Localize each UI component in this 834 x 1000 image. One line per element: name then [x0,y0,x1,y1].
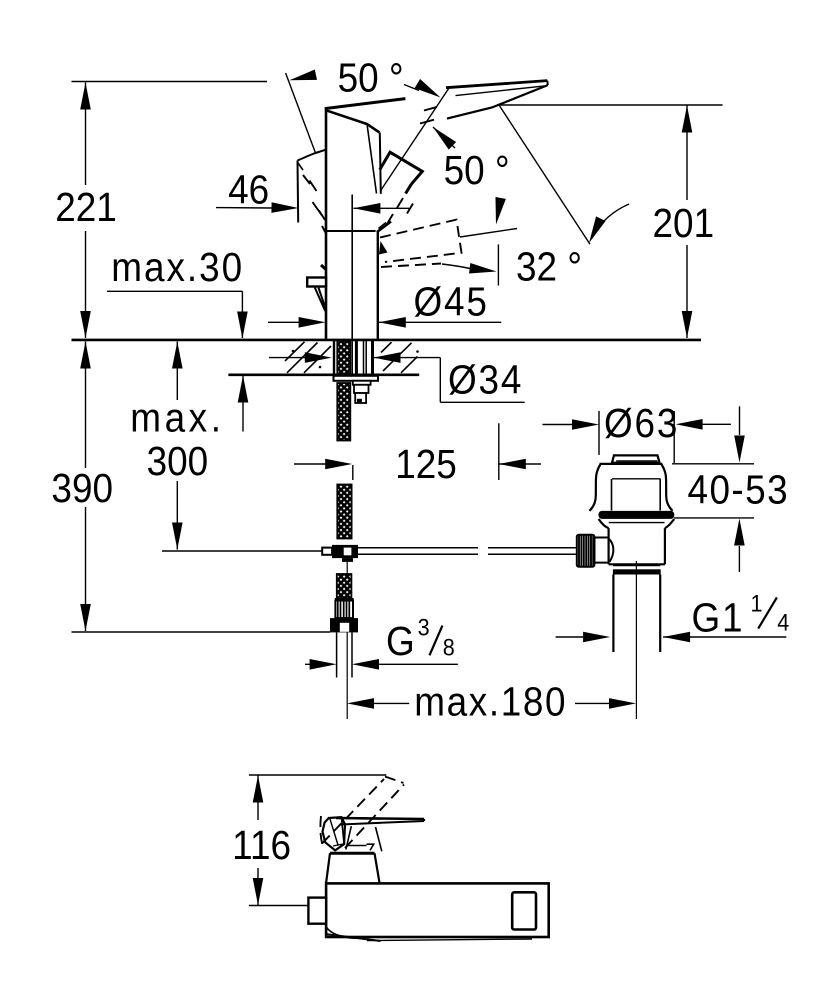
spout belly line [327,934,381,941]
lever raised: top corner [298,150,326,161]
svg-text:max.30: max.30 [111,245,244,290]
mounting nut steps [353,381,371,385]
svg-text:3: 3 [418,613,430,640]
angle leg left [286,73,316,153]
pop-up linkage rod [358,548,577,555]
rubber washer [599,511,675,519]
svg-text:max.: max. [130,396,224,441]
svg-text:32 °: 32 ° [516,245,582,290]
inner cylinder [612,479,661,511]
svg-text:max.180: max.180 [414,680,567,725]
braided hose segment 3 [337,574,352,598]
left arrow [288,70,317,86]
body right edge [377,231,379,339]
reference lines 40-53 [672,464,754,518]
svg-text:221: 221 [55,185,117,230]
plug cap [612,455,660,462]
svg-text:Ø63: Ø63 [604,401,679,446]
drain centerline [635,561,637,719]
aerator spray lines [315,288,326,312]
116 top reference line [249,774,386,776]
svg-text:300: 300 [147,439,209,484]
cartridge tower [330,852,375,855]
lever blade inner line [456,86,545,96]
spout right edge upper [380,133,381,194]
svg-text:46: 46 [228,168,269,213]
lever raised: front edge [297,161,300,223]
extension line [497,244,499,285]
aerator window [512,892,536,929]
handle knob open square [380,152,423,193]
svg-text:125: 125 [395,442,457,487]
spout top edge [325,99,406,109]
lever blade top edge [446,81,547,88]
svg-text:1: 1 [751,589,763,616]
svg-text:50 °: 50 ° [338,56,404,101]
svg-text:G1: G1 [692,596,745,641]
body flare below washer [599,519,675,528]
hose connector sleeve [335,598,354,601]
tee lower collar [342,558,353,562]
lever blade tip [546,81,549,86]
arc leader [442,264,472,269]
deck hatching left [285,342,331,373]
svg-text:201: 201 [653,201,715,246]
G3/8 nut [330,618,358,632]
knob-to-sprayhead dashes [387,198,413,224]
svg-text:116: 116 [232,823,291,868]
dash mark on body edge [321,265,326,270]
braided hose segment 1 [337,383,350,441]
shank left line [333,341,335,374]
lever blade bottom edge [447,85,548,119]
leader underline [107,291,242,338]
dim line 116 [257,776,259,906]
lever blade top [336,818,424,819]
angle line through handle [381,87,450,191]
neck right edge / body internal line [351,195,353,374]
svg-text:G: G [386,619,415,664]
angle base line [460,229,517,238]
spout mitre seam [367,124,377,194]
open position line [499,105,590,244]
lever raised: tick [298,163,303,170]
raised lever dashed [322,777,404,849]
pop-up rod in shank [355,341,358,374]
tower hidden edges [346,826,382,851]
spray head dashed rectangle [380,220,462,262]
svg-text:50 °: 50 ° [444,148,510,193]
rod reference line left [162,550,322,552]
flange seam [612,478,661,480]
side port boss [594,538,609,563]
right leader and arrow [404,85,419,91]
flange profile [589,465,600,511]
cross ticks at spray head left [377,222,391,233]
flange top [600,463,663,465]
svg-text:8: 8 [443,633,455,660]
drain body [609,528,665,564]
svg-text:Ø34: Ø34 [448,358,523,403]
spout top front bevel [326,110,380,132]
tail pipe [613,575,660,653]
inlet nub [308,898,326,924]
spout left edge [325,109,328,339]
braided hose in deck [337,341,350,374]
deck hatching right [381,342,418,373]
knurled adjuster [577,535,595,567]
spray head lower dashed line [381,264,441,268]
mounting flange under deck [334,376,379,381]
tee left nub [322,548,332,555]
lever blade bottom [341,819,425,825]
handle knob facets [323,817,346,850]
lever raised: dashed strokes [303,175,326,233]
G3/8 pipe [337,632,352,677]
lever blade left dashes [420,107,437,124]
hose centerline [346,557,348,719]
coupling ring [613,564,660,566]
hose tee junction [332,545,358,558]
spout lip curve [326,927,356,939]
wedge at spray head left [379,241,388,255]
svg-text:Ø45: Ø45 [414,280,489,325]
braided hose segment 2 [337,485,351,539]
aerator tab [307,278,326,287]
spout bar body [326,883,549,937]
arrow up toward blade [433,127,455,148]
116 bottom reference line [249,905,311,907]
shank tube right [371,341,374,374]
leader below label [497,198,501,218]
lower arrow below deck [242,376,244,432]
deck underside line [228,373,419,376]
deck line [72,339,702,342]
dim line 221 [85,83,87,339]
arc arrow onto line [592,204,629,236]
svg-text:40-53: 40-53 [688,468,790,513]
svg-text:4: 4 [777,608,789,635]
top reference line [72,81,268,83]
body shoulder [326,230,376,232]
bottom reference line 390 [72,631,331,633]
svg-text:390: 390 [51,466,113,511]
